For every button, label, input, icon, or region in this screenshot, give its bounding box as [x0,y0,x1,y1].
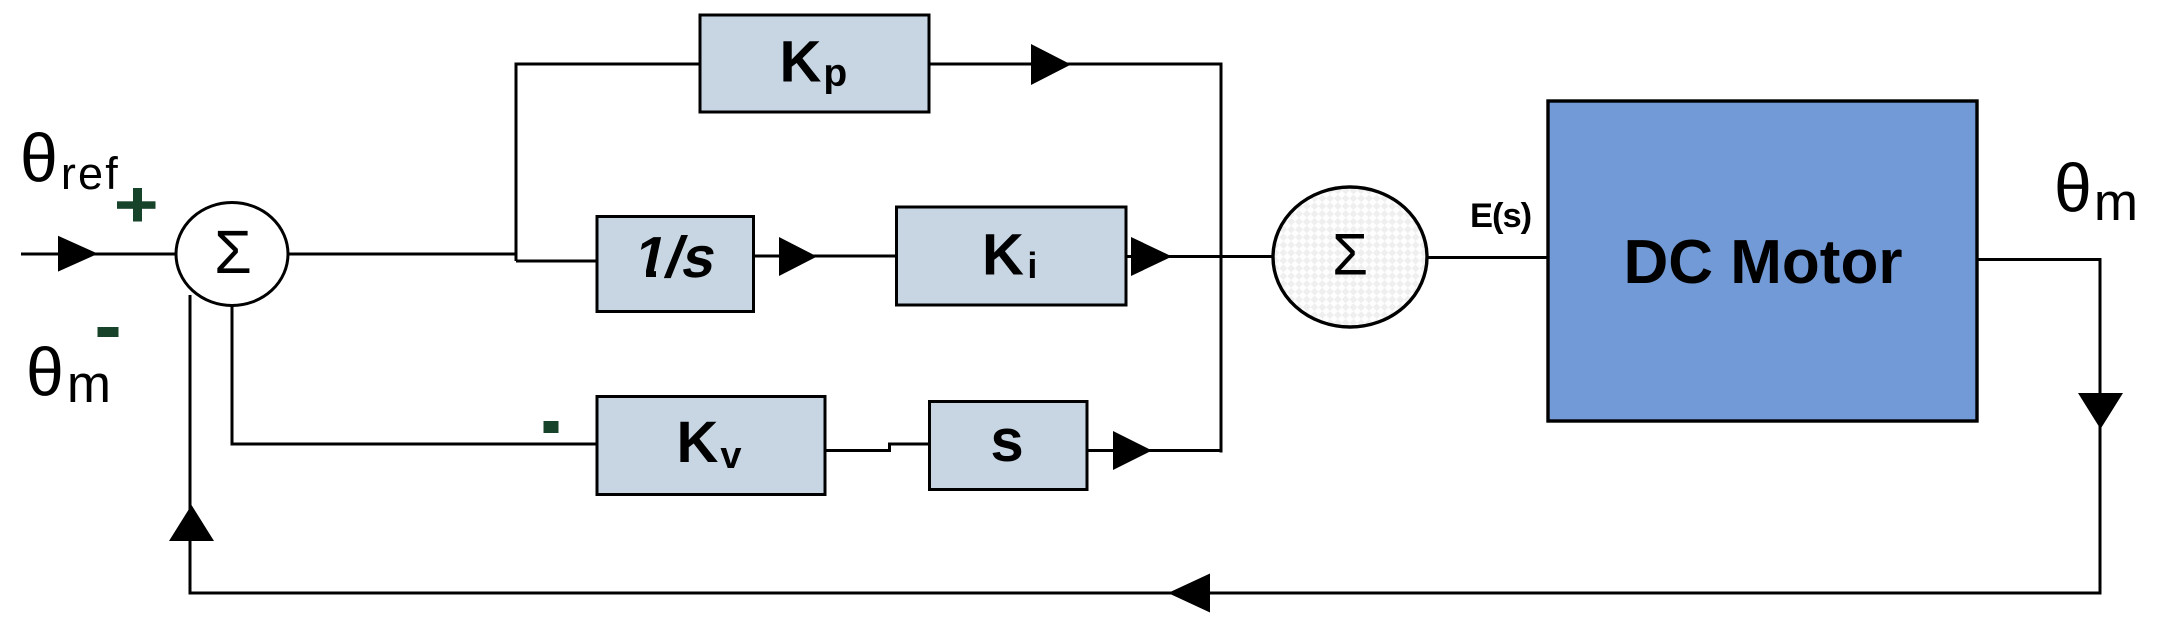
block DC Motor [1548,101,1977,421]
block Kv [597,397,825,495]
summing junction S2 [1273,187,1427,327]
svg-text:DC Motor: DC Motor [1624,228,1903,297]
svg-text:θref: θref [20,120,120,199]
svg-text:θm: θm [2054,150,2138,232]
wire to Kv [231,443,599,446]
arrowhead down on output drop [2078,393,2123,429]
wire summer S1 down [231,305,234,446]
arrowhead left on feedback [1168,574,1210,613]
wire 1/s to Ki [754,255,899,258]
block s [930,402,1088,490]
wire Kv output jog [825,444,930,451]
arrowhead after Ki [1131,237,1172,276]
minus sign at Kv input [544,421,559,433]
block Ki [897,207,1127,305]
wire branch jog down [515,253,518,262]
svg-text:E(s): E(s) [1470,197,1531,235]
svg-text:1/s: 1/s [628,226,722,290]
arrowhead Kp output [1031,44,1071,85]
wire s output to join line [1087,449,1223,452]
svg-text:Σ: Σ [214,218,252,286]
wire feedback bottom [189,592,2102,595]
arrowhead up on feedback [169,505,214,541]
wire Kp output [929,63,1223,66]
arrowhead after 1/s [779,237,817,276]
wire feedback left vertical [189,295,192,595]
svg-text:θm: θm [26,334,111,414]
wire Ki to summer S2 [1126,255,1274,258]
svg-text:s: s [990,407,1023,474]
block integrator 1/s [597,217,754,312]
plus sign at summer S1 [117,188,156,222]
block Kp [700,15,929,112]
wire output down [2099,258,2102,595]
svg-text:Σ: Σ [1332,223,1368,288]
summing junction S1 [176,203,288,306]
wire vertical join line [1220,63,1223,453]
wire summer S1 to branch point [288,253,518,256]
wire branch up to Kp [515,63,518,256]
wire into Kp [515,63,702,66]
wire input to summer S1 [21,253,178,256]
wire DC Motor output [1977,258,2102,261]
arrowhead after s [1113,431,1152,470]
wire branch to integrator [516,260,599,263]
arrowhead input [58,236,98,272]
minus sign at summer S1 [98,327,119,337]
cover foot serif of 1 to mimic Arial [633,271,646,280]
wire summer S2 to DC Motor [1427,256,1549,259]
